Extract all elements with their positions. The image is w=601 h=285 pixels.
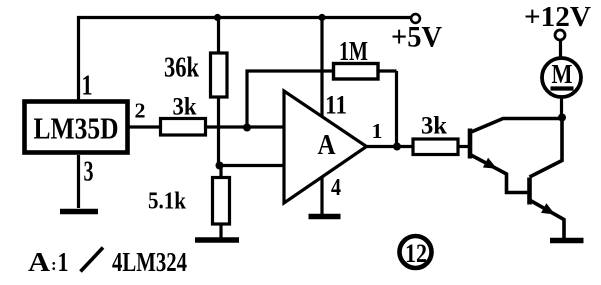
svg-text:5.1k: 5.1k (148, 189, 187, 215)
ground (5.1k) (195, 237, 239, 243)
svg-text:1M: 1M (339, 36, 368, 66)
svg-text:2: 2 (135, 99, 146, 123)
node: 36k tap on +5V rail (214, 14, 221, 21)
svg-text:1: 1 (58, 247, 69, 277)
svg-text:3k: 3k (421, 113, 447, 140)
terminal +12V (524, 1, 591, 40)
sensor U1 LM35D (25, 102, 128, 153)
svg-text:A: A (28, 247, 51, 277)
resistor 3k (input) (161, 94, 206, 136)
svg-text:LM35D: LM35D (34, 111, 119, 146)
node: divider junction to non-inverting input (216, 162, 224, 170)
svg-text:4: 4 (331, 175, 341, 201)
wire: pin 2 to 3k (129, 125, 161, 128)
svg-text:+5V: +5V (391, 21, 442, 54)
wire: 3k to Q1 base (458, 145, 468, 148)
svg-text:+12V: +12V (524, 1, 591, 33)
svg-text:3: 3 (84, 157, 94, 188)
ground (op-amp pin 4) (309, 214, 341, 220)
caption A : 1/4LM324 (28, 247, 187, 277)
terminal +5V (391, 14, 442, 53)
svg-text::: : (51, 255, 57, 274)
node: op-amp pin 11 tap on +5V rail (318, 14, 325, 21)
svg-text:A: A (318, 130, 337, 161)
node: output / feedback junction (393, 143, 401, 151)
ground (Q2 emitter) (550, 238, 584, 244)
wire: 3k to op-amp inverting input (206, 125, 286, 128)
motor M (542, 41, 581, 118)
pin 4 wire and label (322, 175, 341, 214)
svg-text:1: 1 (82, 71, 93, 102)
resistor 1M feedback (247, 36, 397, 147)
pin 2 label (135, 99, 146, 123)
pin 3 wire (77, 155, 80, 208)
op-amp U1 A (1/4 LM324) (284, 91, 367, 203)
wire: op-amp output (366, 145, 413, 148)
svg-text:3k: 3k (173, 94, 197, 121)
node: inverting input / feedback junction (243, 124, 251, 132)
wire: +5V top rail and LM35D pin1 drop (79, 18, 412, 101)
svg-text:M: M (552, 59, 573, 89)
transistor Q1 (NPN) (470, 119, 562, 193)
resistor 36k (164, 18, 227, 167)
resistor 5.1k (148, 166, 230, 238)
transistor Q2 (NPN) (530, 117, 565, 238)
svg-text:36k: 36k (164, 52, 200, 84)
ground (LM35D pin 3) (60, 209, 98, 215)
pin 11 (supply) wire and label (322, 18, 347, 120)
node: motor / collector junction (558, 114, 566, 122)
svg-text:4LM324: 4LM324 (112, 247, 187, 277)
svg-text:12: 12 (405, 239, 427, 268)
pin 3 label (84, 157, 94, 188)
figure number 12 (circled) (400, 236, 432, 268)
svg-text:1: 1 (372, 119, 383, 143)
pin 1 label (82, 71, 93, 102)
svg-text:11: 11 (325, 91, 347, 120)
resistor 3k (base drive) (413, 113, 458, 155)
pin 1 (output) label (372, 119, 383, 143)
wire: divider junction to op-amp non-inverting input (220, 164, 286, 167)
